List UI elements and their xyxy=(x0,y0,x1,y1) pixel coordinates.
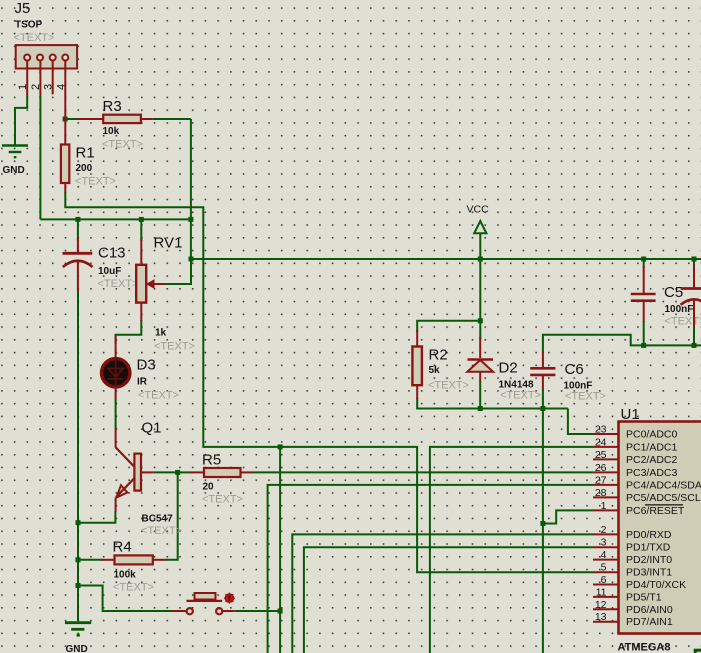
svg-text:26: 26 xyxy=(595,462,607,474)
wire reset net vertical off-screen bottom xyxy=(542,409,544,653)
svg-text:<TEXT>: <TEXT> xyxy=(565,391,606,403)
node C6 bottom xyxy=(540,406,545,411)
node R2/D2 top row xyxy=(478,318,483,323)
svg-text:Q1: Q1 xyxy=(142,420,162,437)
svg-text:GND: GND xyxy=(66,644,88,653)
resistor R2 xyxy=(412,330,469,399)
svg-text:12: 12 xyxy=(595,599,607,611)
svg-text:13: 13 xyxy=(595,611,607,623)
svg-text:10uF: 10uF xyxy=(98,266,121,277)
pin 24 PC1/ADC1 xyxy=(593,446,619,448)
wire button right to vertical xyxy=(235,610,280,612)
svg-text:PD5/T1: PD5/T1 xyxy=(626,591,662,603)
pin 12 PD6/AIN0 xyxy=(593,608,619,610)
wire C13 top pin stub xyxy=(77,219,79,241)
svg-text:1: 1 xyxy=(17,84,29,90)
wire VCC symbol stem xyxy=(479,233,481,259)
svg-text:23: 23 xyxy=(595,424,607,436)
svg-text:4: 4 xyxy=(55,84,67,90)
wire R4 right to base column xyxy=(166,472,178,559)
node VCC stem xyxy=(478,257,483,262)
component corner clipped at bottom-right xyxy=(695,650,701,653)
svg-text:PC3/ADC3: PC3/ADC3 xyxy=(626,467,678,479)
wire RV1 wiper to junction xyxy=(165,259,191,284)
svg-text:ATMEGA8: ATMEGA8 xyxy=(618,642,671,653)
svg-text:R1: R1 xyxy=(76,145,95,162)
svg-text:<TEXT>: <TEXT> xyxy=(14,32,55,44)
wire R5 left xyxy=(178,471,191,473)
pin 26 PC3/ADC3 xyxy=(593,471,619,473)
svg-text:2: 2 xyxy=(601,524,607,536)
svg-text:<TEXT>: <TEXT> xyxy=(202,494,243,506)
svg-text:25: 25 xyxy=(595,449,607,461)
wire RV1 bottom to D3 top xyxy=(116,320,142,344)
wire R3 left junction stub xyxy=(65,118,79,120)
wire right cap top stub xyxy=(693,259,695,268)
wire C6 top to C5 bottom row xyxy=(543,335,701,353)
wire right cap bottom stub xyxy=(693,326,695,345)
svg-text:<TEXT>: <TEXT> xyxy=(98,278,139,290)
svg-text:PC4/ADC4/SDA: PC4/ADC4/SDA xyxy=(626,479,701,491)
svg-text:J5: J5 xyxy=(15,0,31,17)
pin 11 PD5/T1 xyxy=(593,596,619,598)
resistor R5 xyxy=(190,452,253,506)
IC U1 (ATMEGA8) xyxy=(593,406,701,653)
svg-text:R4: R4 xyxy=(113,539,132,556)
svg-text:5k: 5k xyxy=(429,365,441,376)
node button right xyxy=(278,609,283,614)
svg-text:D3: D3 xyxy=(137,357,156,374)
wire C5 bottom stub xyxy=(643,321,645,345)
node button feed row xyxy=(76,583,81,588)
node R3/R1/J5-pin4 xyxy=(63,117,68,122)
pin 28 PC5/ADC5/SCL xyxy=(593,496,619,498)
svg-text:PD7/AIN1: PD7/AIN1 xyxy=(626,616,673,628)
svg-text:100k: 100k xyxy=(114,570,137,581)
svg-text:PD0/RXD: PD0/RXD xyxy=(626,529,672,541)
pin 3 PD1/TXD xyxy=(593,546,619,548)
svg-text:<TEXT>: <TEXT> xyxy=(665,316,701,328)
svg-text:3: 3 xyxy=(601,537,607,549)
svg-text:10k: 10k xyxy=(103,126,120,137)
potentiometer RV1 xyxy=(136,235,195,353)
svg-text:C13: C13 xyxy=(98,245,126,262)
node C5 top xyxy=(641,257,646,262)
pin 25 PC2/ADC2 xyxy=(593,458,619,460)
svg-text:PD4/T0/XCK: PD4/T0/XCK xyxy=(626,579,686,591)
svg-text:100nF: 100nF xyxy=(665,304,694,315)
svg-text:200: 200 xyxy=(76,163,93,174)
pin 27 PC4/ADC4/SDA xyxy=(593,484,619,486)
capacitor right-edge (polarized, clipped) xyxy=(681,266,701,327)
diode D2 (1N4148) xyxy=(467,337,541,402)
wire R4 left to GND column xyxy=(78,559,102,561)
svg-text:R5: R5 xyxy=(202,452,221,469)
pin 2 PD0/RXD xyxy=(593,533,619,535)
svg-text:<TEXT>: <TEXT> xyxy=(102,139,143,151)
svg-text:U1: U1 xyxy=(621,406,640,423)
connector J5 xyxy=(14,0,78,119)
wire pin23 feed xyxy=(568,409,593,435)
svg-text:PC1/ADC1: PC1/ADC1 xyxy=(626,441,678,453)
node wiper junction xyxy=(189,257,194,262)
svg-text:RV1: RV1 xyxy=(154,235,183,252)
svg-text:11: 11 xyxy=(596,586,607,598)
svg-text:<TEXT>: <TEXT> xyxy=(154,341,195,353)
svg-text:PD2/INT0: PD2/INT0 xyxy=(626,554,672,566)
wire pin24 feed xyxy=(430,447,593,653)
pin 23 PC0/ADC0 xyxy=(593,433,619,435)
node base junction xyxy=(175,470,180,475)
pin 5 PD3/INT1 xyxy=(593,571,619,573)
push button xyxy=(172,593,235,615)
svg-text:R3: R3 xyxy=(103,98,122,115)
wire R1 bottom net-B row xyxy=(65,192,593,572)
ground GND1 top-left xyxy=(2,146,28,158)
wire Q1 base to junction xyxy=(153,471,178,473)
power VCC symbol xyxy=(474,221,486,233)
svg-text:5: 5 xyxy=(601,562,607,574)
svg-text:PC6/RESET: PC6/RESET xyxy=(626,505,685,517)
svg-text:TSOP: TSOP xyxy=(15,20,43,31)
svg-text:6: 6 xyxy=(601,574,607,586)
wire R2 top elbow xyxy=(417,321,480,332)
LED D3 (IR) xyxy=(102,335,179,402)
svg-text:<TEXT>: <TEXT> xyxy=(141,525,182,537)
svg-text:27: 27 xyxy=(595,474,607,486)
svg-text:R2: R2 xyxy=(429,347,448,364)
svg-text:4: 4 xyxy=(601,549,607,561)
wire R2 bottom elbow xyxy=(417,398,568,409)
svg-text:3: 3 xyxy=(43,84,55,90)
svg-text:28: 28 xyxy=(595,487,607,499)
pin 1 PC6/RESET xyxy=(593,509,619,511)
pin 6 PD4/T0/XCK xyxy=(593,584,619,586)
resistor R1 xyxy=(61,118,116,193)
svg-text:VCC: VCC xyxy=(467,204,490,216)
svg-text:BC547: BC547 xyxy=(142,514,174,525)
svg-text:24: 24 xyxy=(595,436,607,448)
wire pin27 feed xyxy=(268,485,593,653)
wire D3 bottom to Q1 collector xyxy=(115,398,117,429)
wire button feed from GND column xyxy=(78,586,172,612)
svg-text:GND: GND xyxy=(3,165,25,176)
wire C5 top stub xyxy=(643,259,645,268)
node RV1 top xyxy=(139,217,144,222)
svg-text:PD1/TXD: PD1/TXD xyxy=(626,542,671,554)
svg-text:C6: C6 xyxy=(565,361,584,378)
node right cap top xyxy=(692,257,697,262)
wire pin2 feed xyxy=(292,534,593,653)
capacitor C5 xyxy=(631,266,701,328)
node C13 top xyxy=(75,217,80,222)
node right cap bottom xyxy=(692,343,697,348)
resistor R3 xyxy=(78,98,152,151)
capacitor C13 (polarized) xyxy=(63,238,139,291)
svg-text:<TEXT>: <TEXT> xyxy=(138,390,179,402)
svg-text:20: 20 xyxy=(203,482,215,493)
svg-text:C5: C5 xyxy=(664,284,683,301)
capacitor C6 xyxy=(530,352,606,403)
node R3 corner xyxy=(188,217,193,222)
wire long VCC row y259 to right edge xyxy=(191,258,701,260)
svg-text:PD3/INT1: PD3/INT1 xyxy=(626,567,672,579)
svg-text:D2: D2 xyxy=(499,360,518,377)
wire C13 bottom long GND column xyxy=(77,290,79,621)
svg-text:IR: IR xyxy=(137,377,148,388)
svg-text:PD6/AIN0: PD6/AIN0 xyxy=(626,604,673,616)
node RESET step xyxy=(540,521,545,526)
svg-text:<TEXT>: <TEXT> xyxy=(113,582,154,594)
node net-B button column xyxy=(278,444,283,449)
wire R3-right vertical down to wiper junction xyxy=(190,119,192,259)
svg-text:1k: 1k xyxy=(155,328,167,339)
wire pin3 feed xyxy=(304,547,593,653)
node R4 left row xyxy=(76,557,81,562)
ground GND2 bottom-left xyxy=(65,623,91,636)
svg-text:PC5/ADC5/SCL: PC5/ADC5/SCL xyxy=(626,492,701,504)
svg-text:PC0/ADC0: PC0/ADC0 xyxy=(626,429,678,441)
wire RESET step to pin 1 xyxy=(543,510,593,523)
wire J5 pin2 down to VCC rail row xyxy=(39,95,41,219)
pin 13 PD7/AIN1 xyxy=(593,621,619,623)
resistor R4 xyxy=(101,539,166,594)
wire D2 bottom xyxy=(479,381,481,409)
wire J5 pin1 to ground GND1 xyxy=(15,95,27,145)
svg-text:1: 1 xyxy=(601,500,607,512)
transistor Q1 (BC547) xyxy=(116,420,182,538)
node C5 bottom xyxy=(641,343,646,348)
wire R3 right pin to corner xyxy=(152,118,191,120)
node D2 bottom xyxy=(478,406,483,411)
wire VCC down to R2/D2 top row xyxy=(479,259,481,339)
svg-text:2: 2 xyxy=(30,84,42,90)
wire net-A row y219 (pin2 to R3 corner) xyxy=(40,218,191,220)
wire R5 right to pin 26 xyxy=(252,471,593,473)
wire RV1 top pin xyxy=(140,219,142,241)
wire button vertical off-screen bottom xyxy=(279,447,281,653)
svg-text:<TEXT>: <TEXT> xyxy=(428,380,469,392)
svg-text:PC2/ADC2: PC2/ADC2 xyxy=(626,454,678,466)
wire C6 bottom stub xyxy=(542,389,544,409)
pin 4 PD2/INT0 xyxy=(593,559,619,561)
svg-text:<TEXT>: <TEXT> xyxy=(500,390,541,402)
node emitter row xyxy=(76,520,81,525)
svg-text:<TEXT>: <TEXT> xyxy=(75,176,116,188)
wire Q1 emitter to GND column xyxy=(78,511,115,523)
